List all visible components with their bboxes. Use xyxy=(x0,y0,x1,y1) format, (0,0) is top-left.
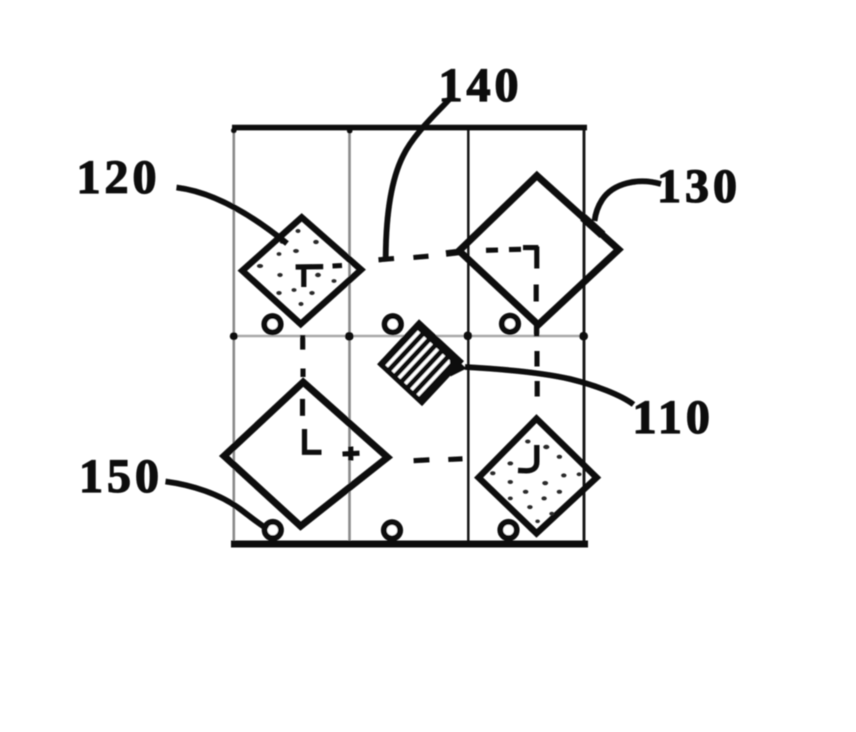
diamond 130 xyxy=(459,176,619,325)
wire dash top edge a xyxy=(379,259,395,260)
wire corner inside 130 xyxy=(523,247,538,269)
diamond bottom-right (stippled) xyxy=(479,419,597,534)
node dot at (468,336) xyxy=(463,331,472,340)
wire dash vertical l xyxy=(300,399,305,416)
stipple dots in diamond 120 xyxy=(257,229,337,306)
wire dash top edge c (thick, joins 130 left vertex) xyxy=(446,252,463,254)
grid middle vertical (gray) xyxy=(348,128,351,543)
leader junction blob 110 xyxy=(450,353,467,377)
grid right vertical (black) xyxy=(583,128,586,543)
wire dash bottom edge k xyxy=(414,457,430,463)
svg-text:140: 140 xyxy=(439,59,523,112)
grid mid horizontal (gray) xyxy=(233,335,585,338)
grid vertical x=468 (black thin) xyxy=(467,128,470,543)
node dot top border mid xyxy=(347,128,353,134)
diamond 120 (stippled) xyxy=(242,217,361,324)
diamond 130 bottom vertex tail xyxy=(534,320,539,337)
wire L corner inside diamond 150 xyxy=(305,429,322,452)
wire dash vertical g xyxy=(534,285,539,302)
wire dash vertical m xyxy=(300,369,305,378)
leader line for 140 xyxy=(386,99,450,257)
dashed loop segments xyxy=(296,247,539,471)
svg-text:130: 130 xyxy=(657,160,741,213)
wire dash bottom edge j xyxy=(448,456,462,462)
wire dash vertical i xyxy=(535,381,540,397)
wire T corner inside diamond 120 xyxy=(296,267,324,288)
svg-text:110: 110 xyxy=(633,391,714,444)
stipple dots in bottom-right diamond xyxy=(490,440,582,524)
node dot at (580,336) xyxy=(579,332,588,341)
circle ring top row 3 xyxy=(502,316,518,332)
wire dash top edge b xyxy=(413,256,428,257)
node dot at (234,336) xyxy=(230,332,238,340)
circle ring bottom row 1 xyxy=(265,522,281,538)
wire J corner inside bottom-right diamond xyxy=(518,445,537,471)
leader line for 130 xyxy=(595,181,662,221)
wire cross mark inside diamond 150 xyxy=(343,447,360,461)
svg-text:150: 150 xyxy=(79,450,163,503)
bottom border (thick) xyxy=(231,541,588,548)
leader line for 120 xyxy=(177,188,288,244)
circle ring bottom row 3 xyxy=(500,522,516,538)
wire dash o xyxy=(333,263,343,269)
wire dash vertical n xyxy=(300,335,305,350)
leader line for 110 xyxy=(465,367,634,405)
wire dash inside 130 e xyxy=(509,247,521,252)
diamond 150 (bottom-left) xyxy=(224,382,388,526)
svg-text:120: 120 xyxy=(77,151,161,204)
node dot at (349,336) xyxy=(345,332,354,341)
grid left vertical (gray) xyxy=(233,128,236,543)
top border (thick) xyxy=(232,125,587,131)
leader junction blob 130 xyxy=(583,217,603,235)
leader line for 150 xyxy=(166,482,268,530)
hatched element 110 (rotated square, black with white stripes) xyxy=(377,319,464,406)
wire dash vertical h xyxy=(534,351,539,367)
wire dash inside 130 d xyxy=(486,247,498,252)
node dot top border left xyxy=(231,128,237,134)
circle ring top row 2 xyxy=(385,316,401,332)
circle ring bottom row 2 xyxy=(384,522,400,538)
circle ring top row 1 xyxy=(264,316,280,332)
